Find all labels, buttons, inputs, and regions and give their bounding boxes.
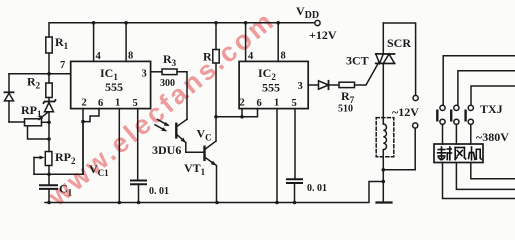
- label ~12V: [392, 105, 419, 119]
- wire IC2 pin4: [245, 23, 247, 62]
- svg-text:3CT: 3CT: [346, 54, 369, 68]
- wire phase C feeder: [471, 86, 515, 105]
- wire IC1 pin1 ground: [118, 109, 120, 203]
- label ~380V: [476, 130, 509, 144]
- svg-text:4: 4: [96, 51, 102, 62]
- capacitor C1: [40, 182, 73, 203]
- wire SCR loop top: [383, 23, 415, 95]
- resistor R1: [46, 35, 69, 53]
- svg-text:6: 6: [98, 98, 103, 109]
- svg-text:4: 4: [248, 51, 254, 62]
- svg-text:2: 2: [82, 98, 87, 109]
- switch TXJ contact 3: [466, 105, 474, 124]
- wire top supply rail: [49, 23, 316, 37]
- wire IC2 pin1 ground: [276, 109, 278, 203]
- wire ~12V return: [383, 128, 415, 170]
- wire R7 to SCR gate: [355, 64, 379, 85]
- svg-text:5: 5: [292, 98, 297, 109]
- wire IC2 pin5: [294, 109, 296, 180]
- svg-text:SCR: SCR: [387, 36, 411, 50]
- svg-text:3: 3: [142, 69, 147, 80]
- ground termination bar: [377, 201, 392, 203]
- svg-text:~380V: ~380V: [476, 130, 509, 144]
- svg-text:1: 1: [115, 98, 120, 109]
- wire pin7 node: [9, 73, 71, 75]
- wire IC1 pin2: [82, 109, 84, 175]
- svg-text:0. 01: 0. 01: [149, 186, 169, 197]
- diode zener VZ: [44, 100, 56, 139]
- node VDD terminal: [315, 20, 320, 25]
- svg-text:2: 2: [240, 98, 245, 109]
- resistor R: [203, 21, 219, 141]
- fan box 新风机: [434, 144, 483, 163]
- wire R1 bottom: [48, 53, 50, 74]
- svg-text:5: 5: [133, 98, 138, 109]
- resistor R7: [338, 82, 355, 114]
- node ~12V terminal bottom: [413, 123, 418, 128]
- label VC1: [89, 162, 109, 178]
- label VDD: [296, 4, 319, 21]
- node RP1 loop junction: [47, 137, 51, 141]
- node rail junctions: [47, 201, 296, 205]
- svg-text:0. 01: 0. 01: [307, 183, 327, 194]
- wire to IC2 pins 2,6: [216, 116, 242, 118]
- svg-text:7: 7: [60, 60, 65, 71]
- potentiometer RP2: [34, 139, 76, 185]
- svg-text:555: 555: [262, 81, 280, 95]
- wire fan phase C out: [471, 163, 515, 179]
- capacitor 0.01 second: [287, 179, 327, 202]
- svg-text:555: 555: [105, 80, 123, 94]
- wire timing node: [34, 122, 83, 175]
- wire IC1 pin8: [125, 23, 127, 62]
- wire IC1 pin4: [93, 23, 95, 62]
- switch TXJ contact 1: [437, 105, 445, 124]
- svg-text:3DU6: 3DU6: [152, 143, 181, 157]
- wire IC2 pin3: [308, 84, 318, 86]
- svg-text:6: 6: [257, 98, 262, 109]
- svg-text:~12V: ~12V: [392, 105, 419, 119]
- wire IC1 pin5: [137, 109, 139, 181]
- potentiometer RP1: [9, 103, 49, 139]
- relay coil KA: [376, 118, 394, 203]
- node ~12V terminal top: [413, 95, 418, 100]
- wire R3 to phototransistor: [177, 72, 187, 120]
- wire contacts to fan box: [442, 124, 444, 144]
- svg-text:8: 8: [128, 51, 133, 62]
- watermark www.elecfans.com: [42, 7, 279, 213]
- wire fan phase A out: [443, 163, 515, 199]
- thyristor SCR triac: [346, 23, 411, 124]
- wire phase A feeder: [443, 56, 515, 105]
- op-amp U2 IC2 555 box: [239, 61, 308, 109]
- node R/VT1/IC2 junction: [214, 115, 218, 119]
- svg-text:510: 510: [338, 104, 353, 115]
- transistor 3DU6 phototransistor: [152, 119, 204, 157]
- label TXJ: [480, 102, 503, 116]
- wire IC2 pin8: [277, 23, 279, 62]
- wire bottom ground rail: [45, 182, 383, 203]
- node R1/R2 junction: [47, 72, 51, 76]
- wire IC2 pin2: [241, 109, 243, 117]
- node zener/RP1 junction: [47, 121, 51, 125]
- svg-text:300: 300: [160, 78, 175, 89]
- label pin 7: [60, 60, 65, 71]
- resistor R2: [27, 74, 52, 102]
- svg-text:3: 3: [298, 81, 303, 92]
- node RP2/C1 junction: [47, 173, 51, 177]
- capacitor 0.01 first: [131, 181, 169, 203]
- transistor VT1: [184, 127, 217, 203]
- wire IC2 pin6 strap: [242, 109, 258, 117]
- wire fan phase B out: [456, 163, 515, 190]
- diode VD left: [5, 74, 14, 122]
- resistor R3: [151, 52, 177, 89]
- svg-text:+12V: +12V: [309, 28, 337, 42]
- op-amp U1 IC1 555 box: [71, 61, 151, 109]
- node coil bottom junctions: [382, 168, 386, 172]
- wire IC1 pin6 strap: [83, 109, 99, 122]
- svg-text:TXJ: TXJ: [480, 102, 503, 116]
- label +12V: [309, 28, 337, 42]
- diode VD2: [319, 81, 340, 89]
- switch TXJ contact 2: [451, 105, 459, 124]
- svg-text:1: 1: [274, 98, 279, 109]
- svg-text:8: 8: [281, 51, 286, 62]
- wire phase B feeder: [458, 71, 515, 106]
- svg-text:R: R: [203, 50, 212, 64]
